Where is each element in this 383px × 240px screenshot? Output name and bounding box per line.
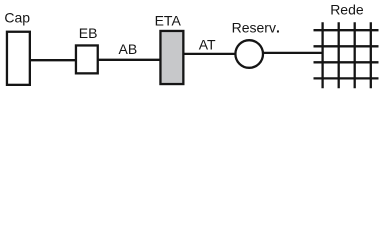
wire ETA-Reserv <box>184 53 237 55</box>
svg-text:EB: EB <box>79 25 98 41</box>
capture tank Cap (box) <box>7 32 30 85</box>
network grid Rede: horizontal line H4 <box>314 77 379 79</box>
network grid Rede: horizontal line H3 <box>314 61 379 63</box>
network grid Rede: vertical line V2 <box>338 22 340 88</box>
network grid Rede: vertical line V4 <box>370 22 372 88</box>
network grid Rede: vertical line V1 <box>321 22 323 88</box>
network grid Rede: vertical line V3 <box>354 22 356 88</box>
wire Cap-EB <box>30 59 76 61</box>
pump station EB (box) <box>76 45 98 73</box>
svg-text:Rede: Rede <box>330 2 364 18</box>
svg-text:AB: AB <box>119 41 138 57</box>
svg-text:ETA: ETA <box>155 12 182 28</box>
svg-text:AT: AT <box>199 36 216 52</box>
network grid Rede: horizontal line H2 <box>314 45 379 47</box>
network grid Rede: horizontal line H1 <box>314 29 379 31</box>
wire Reserv-Rede <box>263 52 323 54</box>
wire EB-ETA <box>98 59 161 61</box>
svg-text:Reserv.: Reserv. <box>232 19 280 35</box>
svg-text:Cap: Cap <box>4 9 30 25</box>
reservoir (circle) <box>235 40 263 68</box>
treatment plant ETA (gray box) <box>160 31 183 84</box>
